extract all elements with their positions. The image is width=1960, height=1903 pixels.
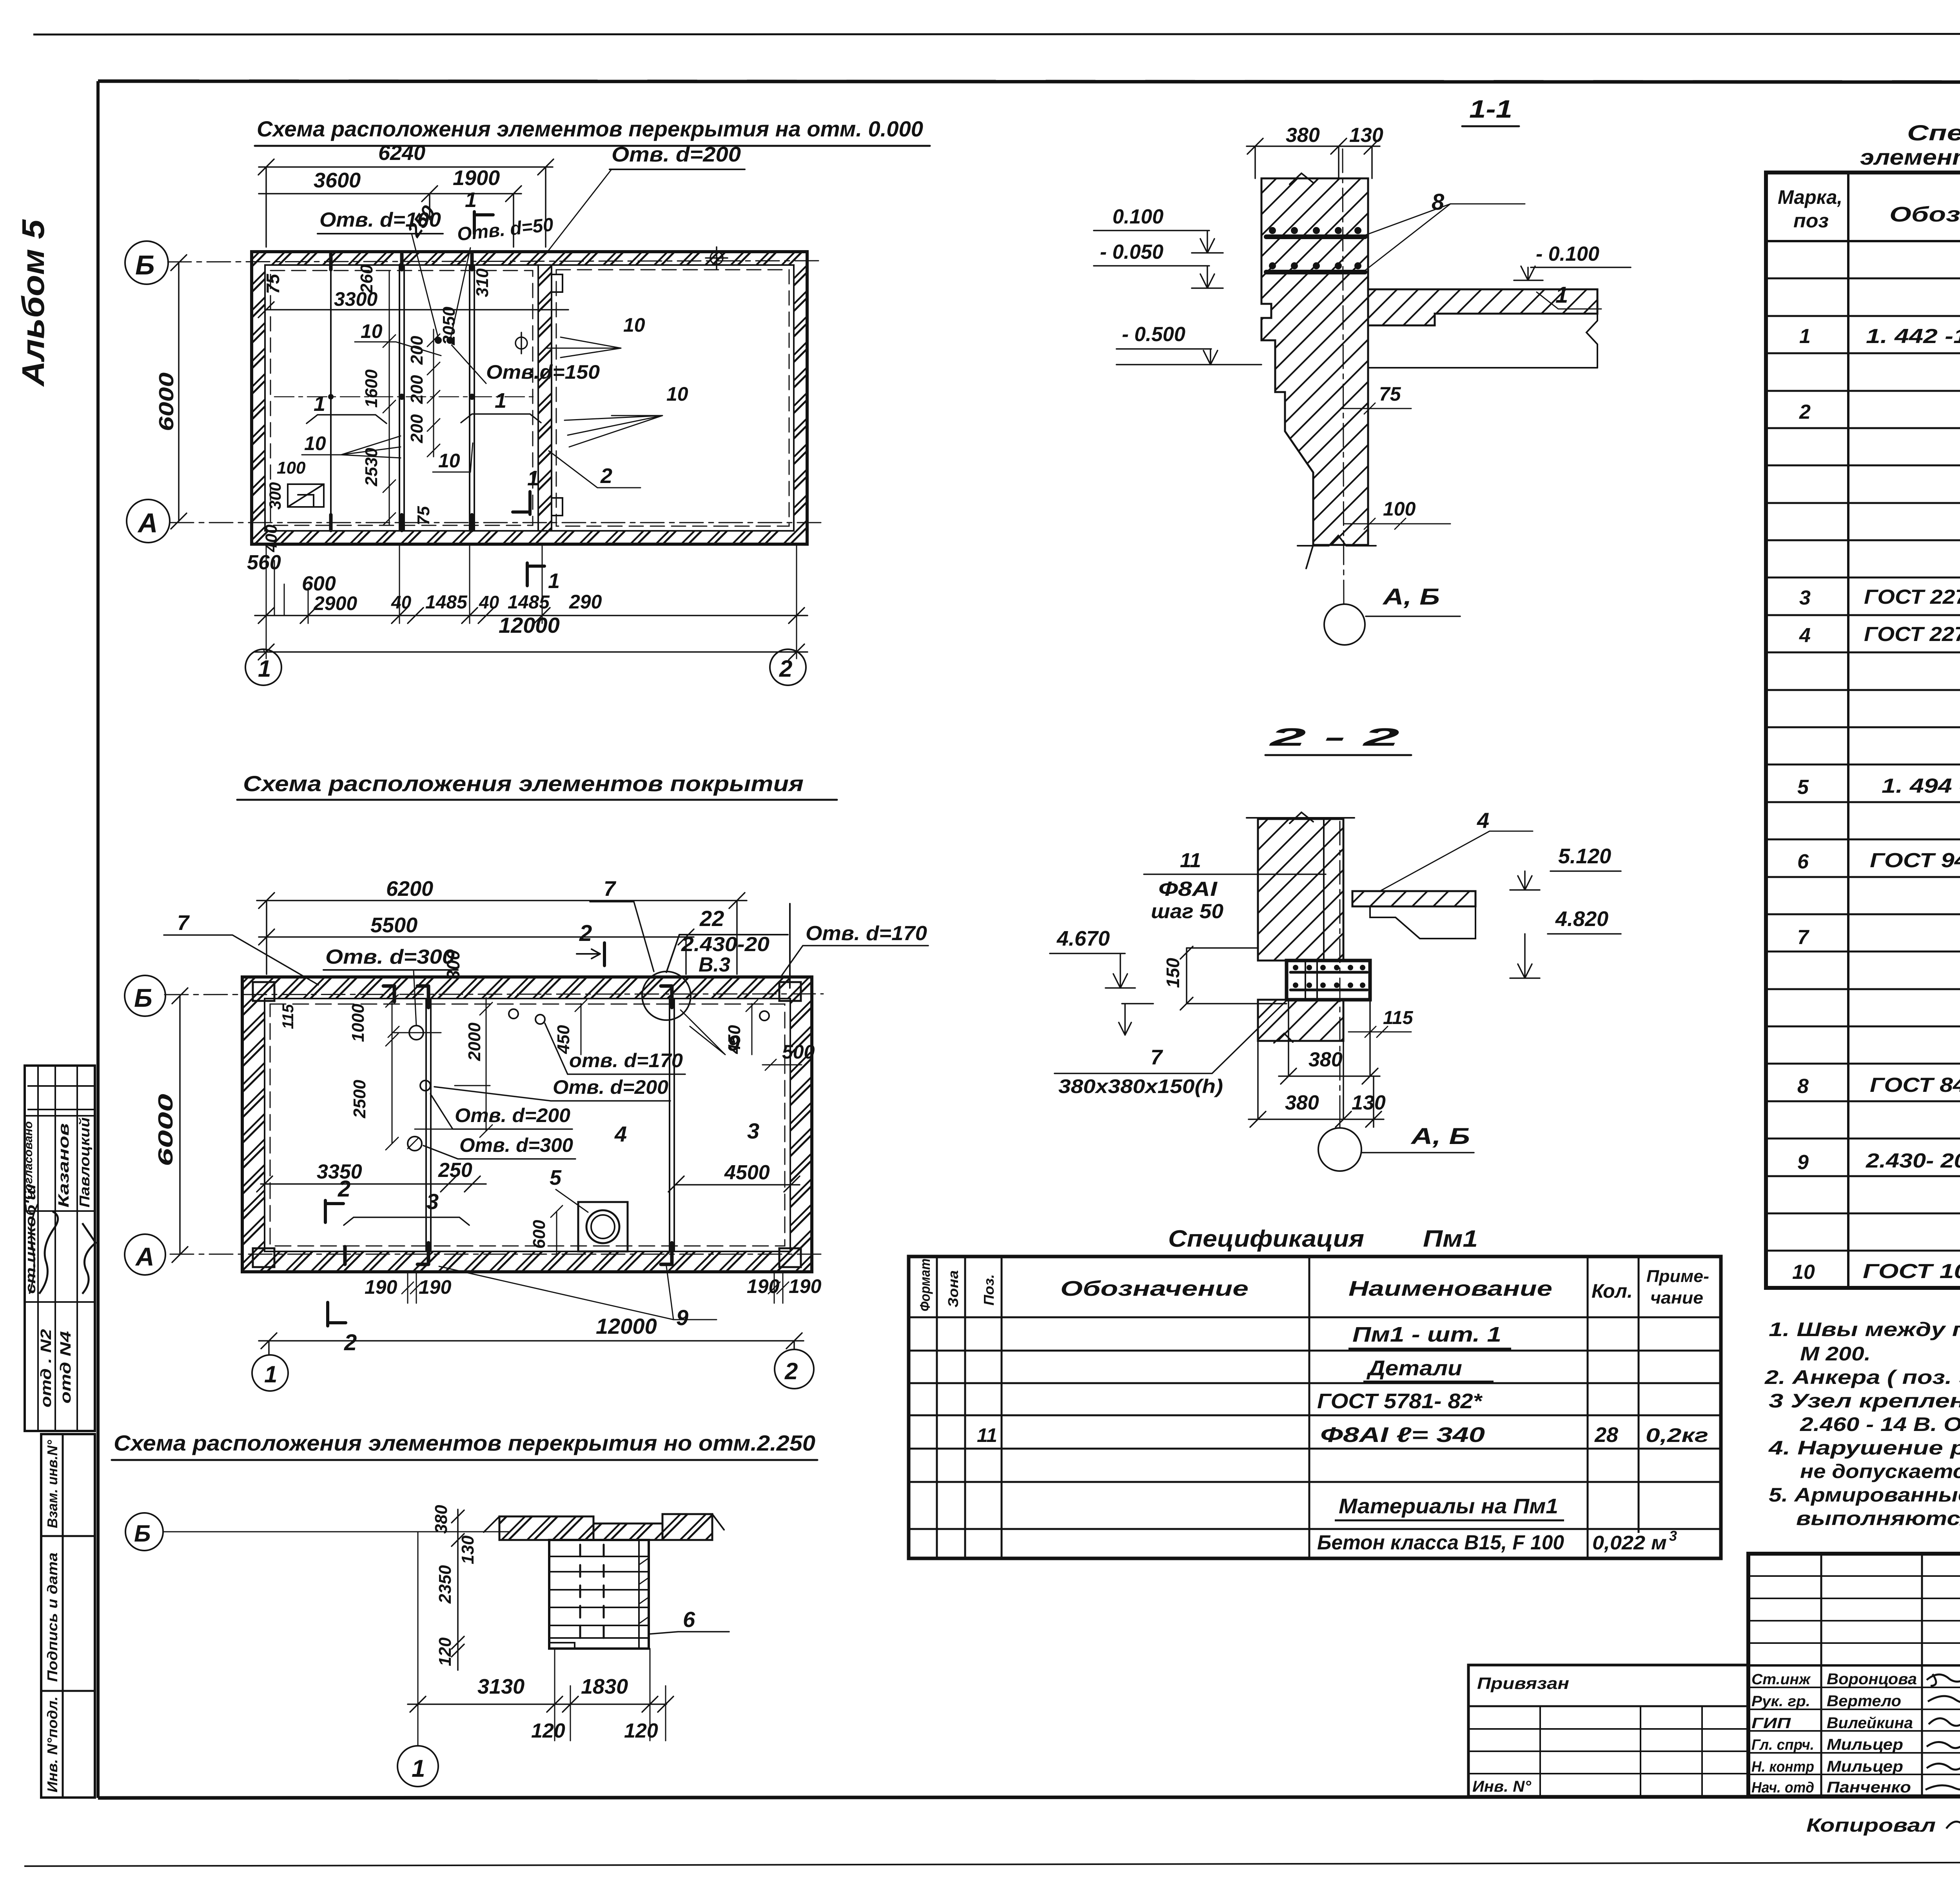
privyazan block box: [1468, 1665, 1748, 1796]
dim 6000 vertical line: [171, 255, 187, 529]
anchor hook bottom 2: [661, 1243, 672, 1264]
svg-text:ГИП: ГИП: [1751, 1715, 1791, 1732]
svg-text:190: 190: [419, 1276, 452, 1298]
svg-text:3: 3: [1669, 1528, 1677, 1544]
anchor hook bottom 3: [343, 1247, 347, 1264]
dim 6000 vertical plan2: [172, 988, 188, 1262]
svg-text:150: 150: [1163, 958, 1183, 988]
svg-text:450: 450: [554, 1025, 573, 1054]
svg-text:Детали: Детали: [1367, 1356, 1462, 1380]
otv d200 leader: [546, 169, 612, 254]
svg-text:Гл. спрч.: Гл. спрч.: [1751, 1737, 1814, 1753]
corner plate symbol tr: [779, 982, 801, 1001]
svg-text:1600: 1600: [362, 369, 381, 408]
axis B2 circle: [125, 975, 165, 1016]
svg-text:380: 380: [1285, 1091, 1319, 1114]
plan1 wall outer outline: [252, 252, 807, 544]
plan3 column inner divider: [638, 1540, 640, 1649]
svg-text:выполняются по периметру на: выполняются по периметру наруженых стен,…: [1796, 1507, 1960, 1529]
sec22 wall hatched upper: [1258, 819, 1343, 961]
upper margin table horizontals: [25, 1116, 95, 1302]
svg-text:Мильцер: Мильцер: [1827, 1736, 1903, 1753]
bottom dim line row: [255, 608, 808, 623]
dim 600 tick: [551, 1206, 563, 1255]
plan2 hole small 4: [420, 1080, 430, 1091]
svg-text:1: 1: [258, 656, 271, 682]
svg-text:А: А: [137, 508, 158, 538]
dim 3600 1900 line: [259, 186, 521, 247]
plan3 axis B circle: [125, 1513, 163, 1551]
upper margin extra squiggle: [27, 1086, 94, 1294]
svg-text:ст.инжоб'ш: ст.инжоб'ш: [22, 1184, 38, 1294]
svg-text:Пм1: Пм1: [1423, 1226, 1478, 1252]
pm1 table horizontals: [909, 1317, 1721, 1529]
plan2 hole big 1: [409, 1026, 423, 1040]
svg-text:А, Б: А, Б: [1382, 584, 1440, 610]
bigtable row lines: [1766, 278, 1960, 1251]
svg-text:4: 4: [1799, 624, 1811, 647]
svg-text:- 0.500: - 0.500: [1122, 323, 1185, 346]
svg-text:10: 10: [666, 383, 688, 405]
otv d200 mid underline leader: [434, 1087, 670, 1101]
svg-text:12000: 12000: [499, 613, 560, 637]
svg-text:5500: 5500: [370, 913, 417, 937]
otv d200 low underline leader: [430, 1094, 572, 1129]
svg-text:отв. d=170: отв. d=170: [569, 1050, 683, 1071]
svg-text:поз: поз: [1793, 210, 1829, 232]
svg-text:5. Армированные швы на отм: 5. Армированные швы на отм. - 0.050 и 0.…: [1769, 1484, 1960, 1506]
lower margin table box: [41, 1434, 95, 1798]
svg-text:120: 120: [531, 1720, 565, 1742]
svg-text:100: 100: [277, 458, 306, 478]
lower margin row line 1: [41, 1535, 95, 1537]
svg-text:1: 1: [264, 1361, 277, 1387]
anchor hook top 3: [383, 986, 394, 1002]
detail bubble leader: [666, 904, 790, 988]
dim 6200 line: [257, 893, 747, 974]
svg-text:200: 200: [407, 375, 426, 404]
otv d170 mid underline leader: [545, 1023, 685, 1074]
svg-text:10: 10: [438, 450, 460, 472]
sheet top border line: [33, 34, 1960, 35]
svg-text:Согласовано: Согласовано: [22, 1121, 35, 1200]
svg-text:А, Б: А, Б: [1410, 1124, 1470, 1149]
svg-text:1900: 1900: [453, 166, 500, 190]
sec22 wall hatched lower: [1258, 1000, 1343, 1041]
svg-text:4.670: 4.670: [1056, 927, 1110, 950]
axis A circle: [127, 499, 170, 543]
plan1 mid dash-dot line: [274, 396, 533, 398]
PLAN2: [125, 771, 928, 1391]
svg-text:Н. контр: Н. контр: [1751, 1759, 1814, 1775]
sec11 axis dashdot: [1343, 149, 1344, 604]
svg-text:190: 190: [365, 1276, 397, 1298]
svg-text:6: 6: [1797, 850, 1809, 873]
svg-text:130: 130: [1352, 1091, 1386, 1114]
svg-text:Рук. гр.: Рук. гр.: [1751, 1693, 1810, 1710]
plan3 column dashed bars: [580, 1545, 604, 1645]
frame top line: [98, 81, 1960, 82]
bigtable outer box: [1766, 173, 1960, 1288]
plan3 column ladder lines: [549, 1556, 649, 1638]
sec11 axis circle: [1324, 604, 1365, 645]
svg-text:9: 9: [728, 1031, 740, 1055]
svg-text:Схема расположения элементов п: Схема расположения элементов перекрытия …: [114, 1431, 815, 1455]
svg-text:10: 10: [304, 432, 326, 454]
dim 3300 line: [258, 302, 568, 318]
svg-text:5: 5: [550, 1166, 562, 1189]
svg-text:500: 500: [782, 1041, 815, 1063]
svg-text:Ф8АI: Ф8АI: [1158, 878, 1218, 901]
svg-text:310: 310: [473, 268, 492, 297]
svg-text:6000: 6000: [155, 372, 178, 431]
plan1 internal wall hatched: [538, 265, 552, 531]
svg-text:400: 400: [262, 525, 280, 552]
svg-text:7: 7: [1151, 1046, 1163, 1069]
sec11 bottom break: [1298, 536, 1376, 568]
svg-text:Схема расположения элементов п: Схема расположения элементов перекрытия …: [257, 116, 923, 141]
sec22 lower break: [1274, 1033, 1293, 1043]
section mark 1 top flag: [474, 212, 493, 234]
svg-text:Отв. d=300: Отв. d=300: [325, 946, 455, 968]
svg-text:Казанов: Казанов: [56, 1123, 72, 1208]
SECTION22: [1050, 723, 1621, 1171]
svg-text:380х380х150(h): 380х380х150(h): [1058, 1075, 1223, 1097]
NOTES: [1764, 1318, 1960, 1529]
plan1 wall ring hatched: [252, 252, 807, 544]
plan1 title underline: [255, 145, 930, 147]
label 3 bracket: [344, 1217, 469, 1225]
svg-text:1. Швы между плитами запол: 1. Швы между плитами заполняются цементн…: [1769, 1318, 1960, 1340]
svg-text:2. Анкера ( поз. 9 ) защити: 2. Анкера ( поз. 9 ) защитить обмазкой ц…: [1764, 1366, 1960, 1388]
plan3 slab left diagonal end: [484, 1514, 724, 1532]
svg-text:Наименование: Наименование: [1348, 1277, 1552, 1300]
stamp outer box: [1748, 1554, 1960, 1796]
label 7 leader: [164, 935, 318, 985]
svg-text:Нач. отд: Нач. отд: [1751, 1780, 1814, 1796]
plan1 inner dashed offset left room: [270, 271, 533, 525]
svg-text:3130: 3130: [477, 1675, 524, 1698]
plan2 hole small 3: [535, 1015, 545, 1024]
plan1 interior vertical dim chain mid: [427, 329, 440, 457]
svg-text:Бетон класса В15, F 100: Бетон класса В15, F 100: [1317, 1531, 1564, 1554]
axis 1 circle: [245, 649, 281, 685]
svg-text:300: 300: [266, 482, 284, 510]
svg-text:Отв. d=200: Отв. d=200: [553, 1076, 668, 1098]
dim 500 tick: [762, 1059, 802, 1070]
svg-text:6200: 6200: [386, 877, 433, 901]
plan3 slab hatched left: [499, 1516, 593, 1540]
otv d200 underline: [610, 169, 745, 170]
svg-text:Взам. инв.N°: Взам. инв.N°: [44, 1440, 60, 1528]
svg-text:Зона: Зона: [945, 1270, 961, 1307]
svg-text:0,2кг: 0,2кг: [1646, 1424, 1708, 1446]
plan3 axis 1 circle: [397, 1746, 438, 1787]
svg-text:2000: 2000: [465, 1022, 484, 1061]
plan1 interior vertical dim chain left: [383, 271, 396, 525]
svg-text:Павлоцкий: Павлоцкий: [76, 1117, 93, 1208]
svg-text:Инв. N°: Инв. N°: [1472, 1778, 1532, 1795]
plan1 right room pilaster bottom: [552, 498, 563, 516]
plan3 vertical dim line: [452, 1509, 464, 1670]
svg-text:чание: чание: [1650, 1288, 1703, 1307]
svg-text:75: 75: [263, 273, 283, 294]
svg-text:1: 1: [412, 1755, 425, 1782]
svg-text:1830: 1830: [581, 1675, 628, 1698]
svg-text:элементов плит перекрытия: элементов плит перекрытия и покрытия: [1860, 145, 1960, 169]
svg-text:1. 494 -24 в. 1: 1. 494 -24 в. 1: [1882, 775, 1960, 797]
svg-text:0,022 м: 0,022 м: [1592, 1532, 1667, 1554]
pm1 table outer box: [909, 1257, 1721, 1558]
otv d300 top underline: [323, 969, 458, 971]
otv d100 underline: [318, 233, 443, 234]
svg-text:Марка,: Марка,: [1778, 186, 1842, 208]
upper margin signature squiggle 1: [39, 1211, 58, 1294]
svg-text:11: 11: [1180, 849, 1201, 872]
corner plate symbol tl: [253, 982, 274, 1001]
svg-text:9: 9: [1797, 1151, 1809, 1174]
sec11 floor slab hatched: [1368, 289, 1597, 325]
sec22 node rebar row 2: [1290, 989, 1367, 991]
PM1TABLE: [909, 1226, 1721, 1558]
svg-text:130: 130: [458, 1535, 477, 1564]
svg-text:2: 2: [600, 464, 612, 488]
frame left line: [96, 81, 100, 1798]
upper margin signature squiggle 2: [82, 1223, 96, 1294]
svg-text:2500: 2500: [350, 1080, 369, 1119]
svg-text:М 200.: М 200.: [1800, 1343, 1871, 1365]
bottom extension verticals: [266, 544, 797, 659]
svg-text:2: 2: [779, 656, 792, 682]
svg-text:Ст.инж: Ст.инж: [1751, 1671, 1811, 1688]
sec22 wall inner line: [1323, 819, 1325, 961]
LEFT_MARGIN: [16, 219, 96, 1798]
plan3 slab hatched mid: [593, 1523, 662, 1540]
svg-text:2.460 - 14 В. О.: 2.460 - 14 В. О.: [1800, 1413, 1960, 1435]
svg-text:2: 2: [1799, 401, 1811, 423]
svg-text:Приме-: Приме-: [1646, 1267, 1709, 1286]
pump circles: [586, 1210, 619, 1243]
sec22 node box: [1287, 961, 1370, 1000]
svg-text:7: 7: [604, 877, 617, 901]
svg-text:шаг 50: шаг 50: [1151, 900, 1223, 923]
svg-text:Отв. d=200: Отв. d=200: [455, 1104, 570, 1126]
axis B circle: [125, 241, 168, 284]
svg-text:600: 600: [530, 1220, 549, 1249]
otv d50 leader: [451, 248, 470, 337]
pump foundation square: [578, 1202, 628, 1251]
plan2 hole small right: [760, 1011, 769, 1021]
signature squiggles: [1926, 1674, 1960, 1790]
plan1 inner dashed offset right room: [556, 270, 789, 526]
svg-text:Альбом 5: Альбом 5: [16, 219, 51, 387]
frame bottom line: [98, 1796, 1960, 1798]
svg-text:отд N4: отд N4: [58, 1331, 74, 1404]
section mark 1 bottom flag outside: [527, 563, 544, 586]
svg-text:6000: 6000: [154, 1094, 177, 1166]
svg-text:А: А: [135, 1242, 154, 1271]
svg-text:1: 1: [548, 569, 560, 593]
svg-text:380: 380: [1308, 1048, 1343, 1071]
axis A2 dash-dot: [170, 1254, 823, 1255]
svg-text:3 Узел крепления стаканов: 3 Узел крепления стаканов к плитам покры…: [1769, 1390, 1960, 1412]
svg-text:Обозначение: Обозначение: [1889, 203, 1960, 226]
svg-text:22: 22: [699, 906, 724, 931]
sec22 axis dashdot: [1339, 821, 1341, 1121]
svg-text:Ф8АI ℓ= 340: Ф8АI ℓ= 340: [1320, 1423, 1485, 1447]
svg-text:Отв.d=150: Отв.d=150: [486, 361, 600, 383]
svg-text:4: 4: [614, 1122, 627, 1146]
sec22 node rebar row 1: [1290, 971, 1367, 974]
svg-text:1: 1: [465, 188, 477, 212]
sec11 rebar band 1: [1266, 234, 1365, 239]
svg-text:1. 442 -1- 2 В 1, 2: 1. 442 -1- 2 В 1, 2: [1866, 325, 1960, 348]
sec22 wall top edge line: [1247, 812, 1354, 823]
svg-text:115: 115: [1383, 1008, 1414, 1028]
lower margin row line 2: [41, 1690, 95, 1692]
stamp left block verticals: [1821, 1554, 1960, 1796]
svg-text:290: 290: [569, 591, 602, 613]
svg-text:1485: 1485: [425, 592, 468, 613]
svg-text:40: 40: [391, 592, 412, 612]
svg-text:1: 1: [314, 392, 325, 416]
svg-text:12000: 12000: [596, 1314, 657, 1338]
svg-text:40: 40: [479, 592, 499, 612]
svg-text:Спецификация: Спецификация: [1168, 1226, 1364, 1252]
axis A2 circle: [125, 1234, 165, 1275]
anchor hook top 2: [661, 986, 672, 1008]
dim 12000 plan2 line: [259, 1333, 804, 1355]
svg-text:Отв. d=170: Отв. d=170: [806, 922, 927, 945]
callout 11 line: [1144, 873, 1326, 875]
axis 1 circle plan2: [252, 1355, 288, 1391]
svg-text:560: 560: [247, 551, 281, 574]
svg-text:10: 10: [361, 320, 383, 342]
PLAN1: [125, 116, 930, 685]
stamp upper-left grid rows: [1748, 1576, 1960, 1643]
hole dot 2: [446, 337, 454, 344]
svg-text:- 0.050: - 0.050: [1100, 241, 1163, 263]
axis B2 dash-dot: [165, 994, 823, 995]
anchor hook bottom 1: [417, 1243, 428, 1264]
svg-text:3: 3: [1799, 587, 1811, 609]
svg-text:Поз.: Поз.: [981, 1274, 997, 1306]
svg-text:380: 380: [432, 1505, 451, 1534]
svg-text:Спецификация к схемам р: Спецификация к схемам расположения: [1907, 120, 1960, 145]
plan3 foot step: [549, 1643, 575, 1649]
plan2 wall outer outline: [242, 977, 812, 1272]
svg-text:4500: 4500: [724, 1161, 770, 1184]
svg-text:Б: Б: [134, 983, 152, 1012]
svg-text:120: 120: [436, 1637, 455, 1666]
svg-text:6: 6: [683, 1607, 695, 1632]
privyazan row line 1: [1468, 1705, 1748, 1707]
svg-text:Привязан: Привязан: [1477, 1674, 1569, 1692]
svg-text:- 0.100: - 0.100: [1536, 243, 1599, 265]
sec11 wall top break: [1290, 173, 1313, 184]
plan3 dim ext verticals: [418, 1532, 666, 1745]
svg-text:2: 2: [784, 1358, 798, 1384]
svg-text:11: 11: [977, 1424, 997, 1446]
svg-text:260: 260: [357, 264, 376, 294]
dim 12000 line: [255, 644, 808, 660]
sec22 title underline: [1265, 754, 1411, 756]
otv d300 low underline leader: [423, 1146, 575, 1159]
svg-text:Отв. d=300: Отв. d=300: [459, 1134, 573, 1156]
hole circle top wall: [706, 247, 728, 269]
sheet bottom border line: [24, 1861, 1960, 1866]
plan2 hole big 5: [408, 1137, 422, 1151]
plan2 hole small 2: [509, 1009, 518, 1019]
svg-text:Схема расположения элементов п: Схема расположения элементов покрытия: [243, 771, 804, 796]
sec22 axis stem: [1339, 1119, 1341, 1128]
dim 450 right tick: [746, 1000, 758, 1055]
svg-text:6240: 6240: [378, 141, 425, 165]
svg-text:2: 2: [579, 921, 592, 946]
hole dot 1: [435, 337, 442, 344]
STAMP: [1468, 1554, 1960, 1838]
svg-text:Панченко: Панченко: [1827, 1779, 1911, 1796]
svg-text:ГОСТ 22701.1- 77: ГОСТ 22701.1- 77: [1864, 623, 1960, 646]
plan2 interior vertical dim chain mid: [480, 998, 492, 1137]
BIGTABLE: [1766, 120, 1960, 1288]
plan2 interior vertical dim chain left: [386, 995, 398, 1150]
axis B dash-dot: [168, 261, 823, 262]
plan2 wall inner outline: [265, 999, 790, 1251]
anchor hook top 1: [417, 986, 428, 1008]
svg-text:не допускается.: не допускается.: [1800, 1460, 1960, 1482]
sec22 roof slab: [1352, 891, 1475, 906]
sec22 axis circle: [1318, 1128, 1361, 1171]
plan2 joint double b: [426, 999, 431, 1251]
svg-text:2900: 2900: [313, 592, 357, 614]
svg-text:ГОСТ 22701.1 - 77: ГОСТ 22701.1 - 77: [1864, 586, 1960, 608]
sec11 axis label line: [1366, 616, 1460, 617]
dim 3350 line: [257, 1176, 486, 1192]
plan3 title underline: [112, 1459, 817, 1461]
svg-text:2350: 2350: [436, 1565, 455, 1604]
svg-text:3: 3: [426, 1189, 439, 1214]
axis 2 circle plan2: [775, 1349, 814, 1389]
svg-text:Б: Б: [134, 1520, 151, 1547]
plan1 joint double b: [399, 265, 404, 531]
svg-text:1485: 1485: [508, 592, 550, 613]
axis 2 circle: [770, 649, 806, 685]
sec22 axis label line: [1361, 1152, 1474, 1153]
plan2 title underline: [237, 799, 837, 801]
svg-text:2.430-20: 2.430-20: [681, 933, 769, 956]
dim 450 left tick: [575, 1000, 587, 1055]
svg-text:Формат: Формат: [917, 1258, 933, 1311]
plan1 joint double c: [470, 265, 474, 531]
bigtable header bottom: [1766, 240, 1960, 242]
corner plate symbol bl: [253, 1248, 274, 1267]
plan3 bottom dim line: [408, 1696, 673, 1712]
svg-text:ГОСТ 8478-81: ГОСТ 8478-81: [1870, 1074, 1960, 1097]
svg-text:130: 130: [1349, 124, 1383, 147]
upper margin table box: [25, 1066, 95, 1431]
sec11 beam bottom line: [1368, 367, 1597, 369]
svg-text:Копировал: Копировал: [1806, 1815, 1936, 1836]
svg-text:Материалы на Пм1: Материалы на Пм1: [1339, 1494, 1558, 1518]
svg-text:ГОСТ 948 -84: ГОСТ 948 -84: [1870, 849, 1960, 872]
svg-text:Вертело: Вертело: [1827, 1692, 1901, 1710]
plan1 joint mid dots: [328, 394, 475, 400]
svg-text:1: 1: [1555, 282, 1568, 308]
svg-text:10: 10: [1792, 1261, 1815, 1284]
svg-text:Кол.: Кол.: [1592, 1280, 1633, 1302]
upper margin table verticals: [38, 1066, 77, 1431]
